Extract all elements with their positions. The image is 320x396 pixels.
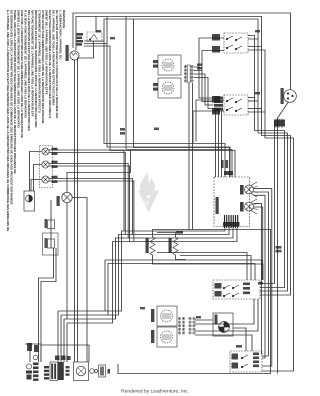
infinite switch S3 (dashed box) (224, 95, 248, 115)
connector P4 (lower terminal columns) (178, 317, 195, 334)
wire (248, 47, 291, 296)
wire (49, 181, 134, 242)
wire lamp PL2 left (34, 165, 42, 192)
wire L2 top bus (76, 17, 262, 51)
infinite switch S2 (dashed box) (224, 33, 248, 53)
wire lower element d (195, 335, 252, 351)
selector switch S4 (dashed box) (213, 280, 260, 299)
fuse F1 (26, 364, 31, 369)
thermal switch TS1 (48, 239, 55, 248)
wire relay K1 fanout c (254, 195, 265, 358)
labels S2 wires (212, 34, 220, 53)
thermal fuse TF1 (48, 220, 55, 229)
wire (49, 166, 130, 242)
surface element E3 (157, 306, 177, 326)
wire plug stair 1 (194, 67, 214, 98)
wire clock bus 1 (58, 228, 225, 311)
pilot lamp PL3 (42, 176, 49, 183)
wire coil top bus (118, 230, 271, 374)
wire lower element a (195, 319, 213, 321)
note text block (french service remarks, rotated) (6, 10, 66, 231)
labels bottom row wires (27, 343, 71, 360)
breaker F2 (33, 355, 38, 360)
wire plug stair 4 (194, 78, 214, 109)
wire lamp PL2 right (49, 164, 128, 239)
wire bottom-left jumper (25, 344, 41, 362)
surface element E1 (158, 55, 181, 75)
connector P2 (274, 120, 285, 127)
label door switch wires (77, 33, 84, 46)
wire (84, 46, 235, 177)
wire lamp PL3 left (31, 180, 42, 192)
wire (248, 100, 258, 102)
label PL2 wires (52, 161, 58, 168)
wire relay K1 fanout b (254, 192, 269, 356)
relay K1 (245, 182, 258, 197)
wire coil right a (157, 253, 247, 281)
terminal X7 (108, 369, 111, 374)
wire (218, 111, 220, 178)
wire column to coil a (188, 83, 190, 230)
wire mid vertical b (134, 19, 230, 177)
capacitor X6 (99, 365, 106, 377)
label bake (146, 238, 149, 253)
label OVEN LAMP (66, 45, 69, 61)
grommet X5 (90, 369, 98, 374)
wire plug stair 2 (194, 71, 214, 102)
wire drop x64 (63, 319, 65, 362)
wire switch1 left a (199, 38, 224, 67)
wire lamp PL1 left (30, 152, 42, 192)
wire (29, 344, 31, 362)
svg-text:E L’APPAREIL UNE FOIS LA REPAR: E L’APPAREIL UNE FOIS LA REPARATION EFFE… (6, 10, 10, 231)
label clock (224, 171, 233, 175)
relay X3 (50, 362, 58, 381)
label fan motor (215, 315, 218, 325)
bake element R1 (150, 237, 155, 255)
wire drop x61 (108, 264, 255, 316)
wire door switch drop (95, 17, 97, 33)
wire convection drop (66, 203, 68, 319)
wire coil mid (157, 233, 176, 238)
wire corner pair b (41, 248, 56, 362)
wire L1 top bus (73, 13, 291, 90)
door switch S1 (dashed box) (87, 32, 102, 42)
relay K2 (245, 199, 258, 214)
wire lamp PL3 right (49, 179, 133, 235)
wire coil right b (180, 256, 251, 281)
relay X2 (58, 362, 64, 380)
svg-text:Rendered by LeadVenture, Inc.: Rendered by LeadVenture, Inc. (121, 389, 189, 395)
wire lower element c (195, 299, 258, 331)
label power plug (281, 88, 284, 104)
wire coil bottoms (153, 255, 264, 280)
wire cluster drops (215, 111, 217, 178)
label BK/W (176, 231, 183, 234)
wire relay K2 fanout a (254, 203, 262, 354)
wire lamp return (long left drop) (74, 60, 76, 362)
label PL3 wires (52, 176, 58, 183)
wire (106, 17, 108, 44)
labels misc wire tags (96, 30, 282, 348)
wire switch2 left a (196, 100, 224, 142)
labels S3 wires (212, 96, 220, 115)
wire switch2 left b (193, 111, 224, 144)
wire lower element b (195, 299, 254, 324)
motor M1 (partial box) (24, 191, 35, 211)
label element E3 (151, 309, 154, 322)
wire switch2 right (248, 97, 255, 99)
wire plug tail (278, 103, 289, 374)
label element E4 (151, 330, 154, 343)
wire drop x51 (50, 200, 52, 248)
pilot lamp PL1 (42, 148, 49, 155)
wire plug stair 3 (194, 74, 214, 105)
wire relay K1 fanout a (254, 189, 272, 366)
wire (248, 50, 294, 371)
electronic clock control A1 (dashed box) (214, 177, 250, 227)
wire fan to switch (233, 328, 246, 351)
oven selector S5 (dashed box) (230, 351, 262, 372)
wire clock bus 2 (61, 228, 229, 315)
label 2013 BK/YR (216, 197, 219, 214)
wire (248, 111, 265, 113)
label convection motor (57, 196, 60, 206)
wire N top bus (104, 19, 258, 41)
labels S4 wires (215, 283, 251, 297)
label PL1 wires (52, 148, 58, 155)
wire (49, 153, 125, 235)
surface element E4 (157, 327, 177, 347)
wire drop x58 (105, 260, 262, 311)
wire lamp PL1 right (49, 150, 124, 231)
convection motor M2 (62, 192, 72, 202)
wire clock bus 4 (67, 228, 237, 323)
wire (84, 44, 230, 178)
power plug J1 (284, 90, 297, 103)
wire switch1 right (248, 36, 285, 288)
motor M4 (74, 362, 89, 381)
label broil (169, 238, 172, 253)
wire P2 drop (260, 121, 275, 284)
wire door switch tail (78, 42, 94, 363)
connector P3 (clock pins) (225, 215, 238, 228)
wire (248, 39, 288, 291)
wire lamp label runs (84, 41, 225, 177)
label element E1 (153, 60, 158, 68)
connector labels cluster (214, 97, 223, 111)
wire (221, 111, 223, 178)
connector X4 (66, 366, 70, 376)
wire column to coil b (192, 83, 194, 230)
thermal switch box outline (43, 233, 59, 255)
labels S5 wires (232, 354, 239, 369)
oven lamp B1 (70, 51, 79, 60)
wire relay K2 fanout b (254, 207, 263, 280)
wire drop x61b (60, 315, 62, 362)
surface element E2 (158, 78, 181, 98)
wire motor feed (41, 345, 89, 362)
wire (176, 255, 187, 260)
fan motor M3 (213, 313, 233, 336)
labels S5 right wires (253, 353, 259, 368)
label element E2 (153, 83, 158, 91)
wire mid vertical a (126, 17, 232, 178)
broil element R2 (173, 237, 178, 255)
wire drop x58b (57, 311, 59, 362)
wire convection feed (67, 150, 131, 193)
wire switch1 left b (202, 51, 224, 71)
wire clock bus 3 (64, 228, 233, 319)
wire (248, 108, 262, 110)
terminal strip X1 (44, 366, 49, 380)
wire convection drop b (72, 198, 87, 363)
connector P1 (upper terminal columns) (184, 65, 193, 83)
indicator lamps box (dashed) (40, 146, 53, 188)
watermark flame logo (138, 172, 159, 213)
wire drop x67 (66, 323, 68, 362)
pilot lamp PL2 (42, 161, 49, 168)
wire corner pair a (39, 248, 54, 362)
